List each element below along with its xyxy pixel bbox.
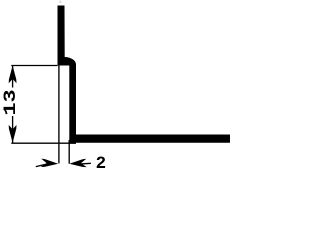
svg-text:2: 2 [96,154,107,174]
svg-text:13: 13 [1,89,20,115]
